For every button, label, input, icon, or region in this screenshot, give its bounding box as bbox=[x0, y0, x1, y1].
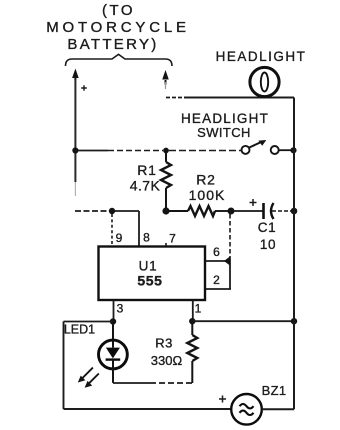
node pin 1 / R3 top bbox=[189, 318, 195, 324]
buzzer BZ1 bbox=[231, 394, 262, 425]
plus sign buzzer bbox=[219, 396, 226, 403]
wire pin 2 stub bbox=[205, 288, 231, 290]
wire bottom rail bbox=[64, 408, 232, 410]
LED light arrows bbox=[78, 368, 99, 388]
wire node to left branch bbox=[64, 322, 114, 410]
svg-text:HEADLIGHT: HEADLIGHT bbox=[181, 111, 269, 126]
wire pin 1 bbox=[192, 300, 194, 321]
node switch to right rail bbox=[290, 147, 296, 153]
plus sign C1 bbox=[250, 199, 257, 206]
brace grouping battery wires bbox=[66, 54, 173, 66]
svg-text:8: 8 bbox=[143, 231, 150, 245]
label (TO MOTORCYCLE BATTERY) bbox=[46, 2, 190, 53]
svg-text:(TO: (TO bbox=[102, 2, 135, 19]
node C1 to right rail bbox=[291, 208, 298, 215]
label R2 value bbox=[189, 172, 226, 204]
node R1 top bbox=[163, 148, 169, 154]
svg-text:2: 2 bbox=[213, 273, 220, 287]
wire battery minus to headlight rail bbox=[166, 82, 295, 98]
node pin 6 bbox=[224, 256, 231, 266]
resistor R2 100K bbox=[166, 206, 229, 216]
resistor R3 330 ohm bbox=[187, 321, 197, 383]
svg-text:R2: R2 bbox=[196, 172, 216, 188]
svg-text:330Ω: 330Ω bbox=[151, 353, 183, 368]
switch SW headlight bbox=[242, 140, 292, 154]
node pin 9 junction bbox=[109, 208, 115, 214]
lamp headlight bbox=[250, 67, 279, 96]
node left rail / switch wire bbox=[72, 147, 78, 153]
svg-text:6: 6 bbox=[213, 245, 220, 259]
battery + terminal arrow bbox=[72, 69, 79, 81]
svg-text:555: 555 bbox=[137, 273, 162, 289]
svg-text:4.7K: 4.7K bbox=[130, 178, 161, 194]
wire pin1 node to right rail bbox=[192, 320, 294, 322]
wire pin 3 bbox=[113, 300, 115, 322]
svg-text:1: 1 bbox=[195, 302, 202, 316]
svg-text:U1: U1 bbox=[139, 259, 158, 274]
wire pin 9 bbox=[111, 214, 113, 246]
svg-text:7: 7 bbox=[169, 232, 176, 246]
svg-text:3: 3 bbox=[117, 302, 124, 316]
wire pin 6 stub bbox=[205, 260, 228, 262]
svg-text:LED1: LED1 bbox=[64, 323, 95, 337]
svg-text:BATTERY): BATTERY) bbox=[67, 36, 158, 53]
wire LED bottom to R3 bottom bbox=[113, 382, 192, 383]
wire Vcc segment to pins 4,8 bbox=[75, 211, 139, 246]
node right rail / pin1 wire bbox=[291, 318, 297, 324]
svg-text:9: 9 bbox=[116, 231, 123, 245]
plus sign battery bbox=[81, 85, 87, 91]
wire pin 7 tick bbox=[165, 243, 167, 247]
wire right rail bbox=[293, 98, 295, 410]
capacitor C1 10 bbox=[233, 203, 291, 219]
svg-text:SWITCH: SWITCH bbox=[197, 125, 251, 140]
node pin 3 / LED top bbox=[110, 318, 116, 324]
svg-text:R1: R1 bbox=[137, 162, 157, 178]
label R1 value bbox=[130, 162, 161, 194]
svg-text:BZ1: BZ1 bbox=[262, 383, 287, 398]
label R3 value bbox=[151, 336, 183, 369]
svg-text:10: 10 bbox=[260, 237, 276, 252]
label C1 value bbox=[258, 220, 276, 252]
svg-text:100K: 100K bbox=[189, 187, 226, 203]
battery - terminal arrow bbox=[162, 70, 169, 85]
wire pins 2,6 vertical bbox=[229, 214, 231, 289]
wire left supply rail bbox=[74, 79, 76, 196]
label HEADLIGHT SWITCH bbox=[181, 111, 269, 140]
wire buzzer to right rail bbox=[262, 408, 294, 410]
svg-text:MOTORCYCLE: MOTORCYCLE bbox=[46, 19, 190, 36]
node R2 / C1 / pins 2,6 bbox=[228, 208, 235, 215]
node R1 bottom / pin 7 bbox=[162, 207, 169, 214]
wire R1 top to switch bbox=[75, 150, 241, 152]
svg-text:C1: C1 bbox=[258, 220, 276, 235]
resistor R1 4.7K bbox=[161, 151, 171, 210]
svg-text:HEADLIGHT: HEADLIGHT bbox=[216, 49, 307, 64]
op-amp U1 555 timer body bbox=[99, 247, 206, 301]
LED LED1 bbox=[99, 322, 128, 383]
svg-text:R3: R3 bbox=[155, 336, 172, 351]
